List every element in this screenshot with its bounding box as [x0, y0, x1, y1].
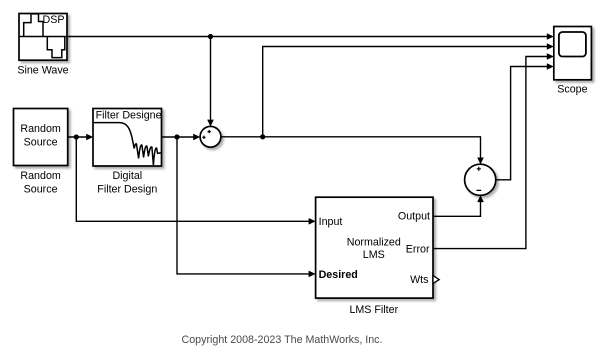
svg-text:DSP: DSP [43, 14, 65, 26]
svg-text:Output: Output [398, 211, 430, 223]
svg-text:Filter Design: Filter Design [97, 184, 157, 196]
svg-text:Source: Source [24, 136, 58, 148]
svg-text:Desired: Desired [319, 269, 358, 281]
svg-text:Source: Source [24, 184, 58, 196]
svg-text:Random: Random [20, 170, 60, 182]
svg-text:LMS Filter: LMS Filter [349, 304, 398, 316]
svg-text:Wts: Wts [410, 274, 428, 286]
svg-text:Normalized: Normalized [347, 236, 401, 248]
svg-text:LMS: LMS [363, 249, 385, 261]
svg-text:Copyright 2008-2023 The MathWo: Copyright 2008-2023 The MathWorks, Inc. [182, 334, 383, 346]
svg-text:Error: Error [406, 243, 430, 255]
svg-text:Input: Input [319, 216, 343, 228]
svg-text:Sine Wave: Sine Wave [17, 65, 68, 77]
svg-text:Digital: Digital [112, 170, 142, 182]
svg-text:Random: Random [20, 123, 60, 135]
svg-text:Filter Designer: Filter Designer [96, 110, 166, 122]
svg-text:Scope: Scope [557, 83, 587, 95]
